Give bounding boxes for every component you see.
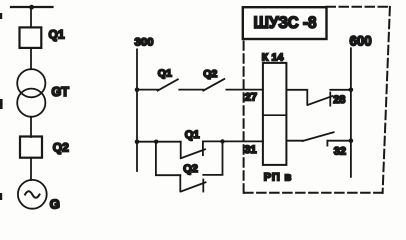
junction node 28 on 600 bus xyxy=(349,88,354,93)
wire Q2 bar to rejoin vertical xyxy=(203,141,222,175)
svg-text:28: 28 xyxy=(333,94,345,106)
svg-text:27: 27 xyxy=(245,91,257,103)
svg-text:32: 32 xyxy=(334,146,346,158)
relay box divider xyxy=(263,114,287,116)
svg-text:300: 300 xyxy=(135,36,154,48)
wire busbar to Q1 xyxy=(30,7,32,28)
contact Q2 blade (bottom branch) xyxy=(181,182,206,191)
svg-text:Q1: Q1 xyxy=(49,28,65,42)
breaker Q2 xyxy=(20,137,42,158)
svg-text:Q2: Q2 xyxy=(183,163,198,175)
svg-text:К 14: К 14 xyxy=(262,52,284,64)
svg-text:Q1: Q1 xyxy=(158,67,172,79)
generator sine symbol xyxy=(25,191,39,198)
junction dot branch rejoin xyxy=(220,139,224,143)
wire contact 32 to 600 bus xyxy=(327,140,351,142)
scan artifact top-left edge xyxy=(0,13,2,19)
svg-text:GТ: GТ xyxy=(52,85,70,99)
svg-text:Q2: Q2 xyxy=(203,68,217,80)
contact 32 bar xyxy=(326,141,328,146)
cabinet ШУЗС-8 label box xyxy=(243,7,327,39)
junction dot on busbar xyxy=(29,5,34,10)
dashed enclosure left edge xyxy=(243,42,245,193)
svg-text:Q1: Q1 xyxy=(185,129,200,141)
wire Q1 bar to terminal 31 xyxy=(203,140,263,142)
wire 300 bus to parallel branch (bottom rung) xyxy=(137,141,181,143)
contact 28 blade xyxy=(308,96,333,105)
bus 600 vertical wire xyxy=(350,48,352,177)
junction dot branch split xyxy=(154,140,158,144)
wire K14 to contact 32 xyxy=(286,140,302,142)
contact Q1 left stub (bottom rung) xyxy=(180,142,182,158)
contact Q1 right bar (bottom rung) xyxy=(202,141,204,155)
wire Q1 to transformer GT xyxy=(30,48,32,69)
contact Q1 blade (bottom rung) xyxy=(181,149,205,158)
junction node bottom rung on 300 bus xyxy=(135,140,140,145)
contact 32 blade xyxy=(303,132,334,141)
svg-text:Q2: Q2 xyxy=(53,141,69,155)
svg-text:ШУЗС -8: ШУЗС -8 xyxy=(254,14,317,32)
svg-text:G: G xyxy=(50,197,60,212)
scan artifact mid-left edge xyxy=(0,99,3,109)
svg-text:600: 600 xyxy=(350,33,373,48)
contact Q2 blade (top rung) xyxy=(203,79,224,91)
junction node top rung on 300 bus xyxy=(135,87,140,92)
wire Q2 contact to terminal 27 and coil K14 xyxy=(226,89,263,91)
svg-text:РП в: РП в xyxy=(264,172,292,184)
dashed enclosure right edge (slight scan skew) xyxy=(383,7,390,193)
junction node 32 on 600 bus xyxy=(349,138,354,143)
dashed enclosure bottom edge xyxy=(244,192,383,194)
dashed enclosure top edge xyxy=(327,6,391,8)
wire between Q1 and Q2 contacts xyxy=(179,89,203,91)
contact Q2 left stub (bottom branch) xyxy=(179,175,181,191)
branch left vertical to Q2 contact xyxy=(156,142,180,176)
transformer GT winding 1 xyxy=(17,69,45,97)
wire contact 28 to 600 bus xyxy=(330,89,351,91)
bus 300 vertical wire xyxy=(136,49,138,171)
relay K14 coil box xyxy=(263,63,287,165)
transformer GT winding 2 xyxy=(17,89,45,117)
contact 28 bar xyxy=(329,93,331,106)
svg-text:31: 31 xyxy=(244,144,256,156)
generator G circle xyxy=(18,180,47,209)
breaker Q1 xyxy=(20,27,42,48)
contact Q1 blade (top rung) xyxy=(158,79,178,90)
wire 300 bus to contact Q1 (top rung) xyxy=(137,89,158,91)
contact Q2 right bar (bottom branch) xyxy=(202,180,204,192)
busbar top-left xyxy=(11,6,53,8)
scan artifact bottom-left edge xyxy=(0,193,2,200)
wire Q2 to generator G xyxy=(30,158,32,180)
wire GT to Q2 xyxy=(30,117,32,137)
wire K14 to contact 28 xyxy=(286,90,307,105)
